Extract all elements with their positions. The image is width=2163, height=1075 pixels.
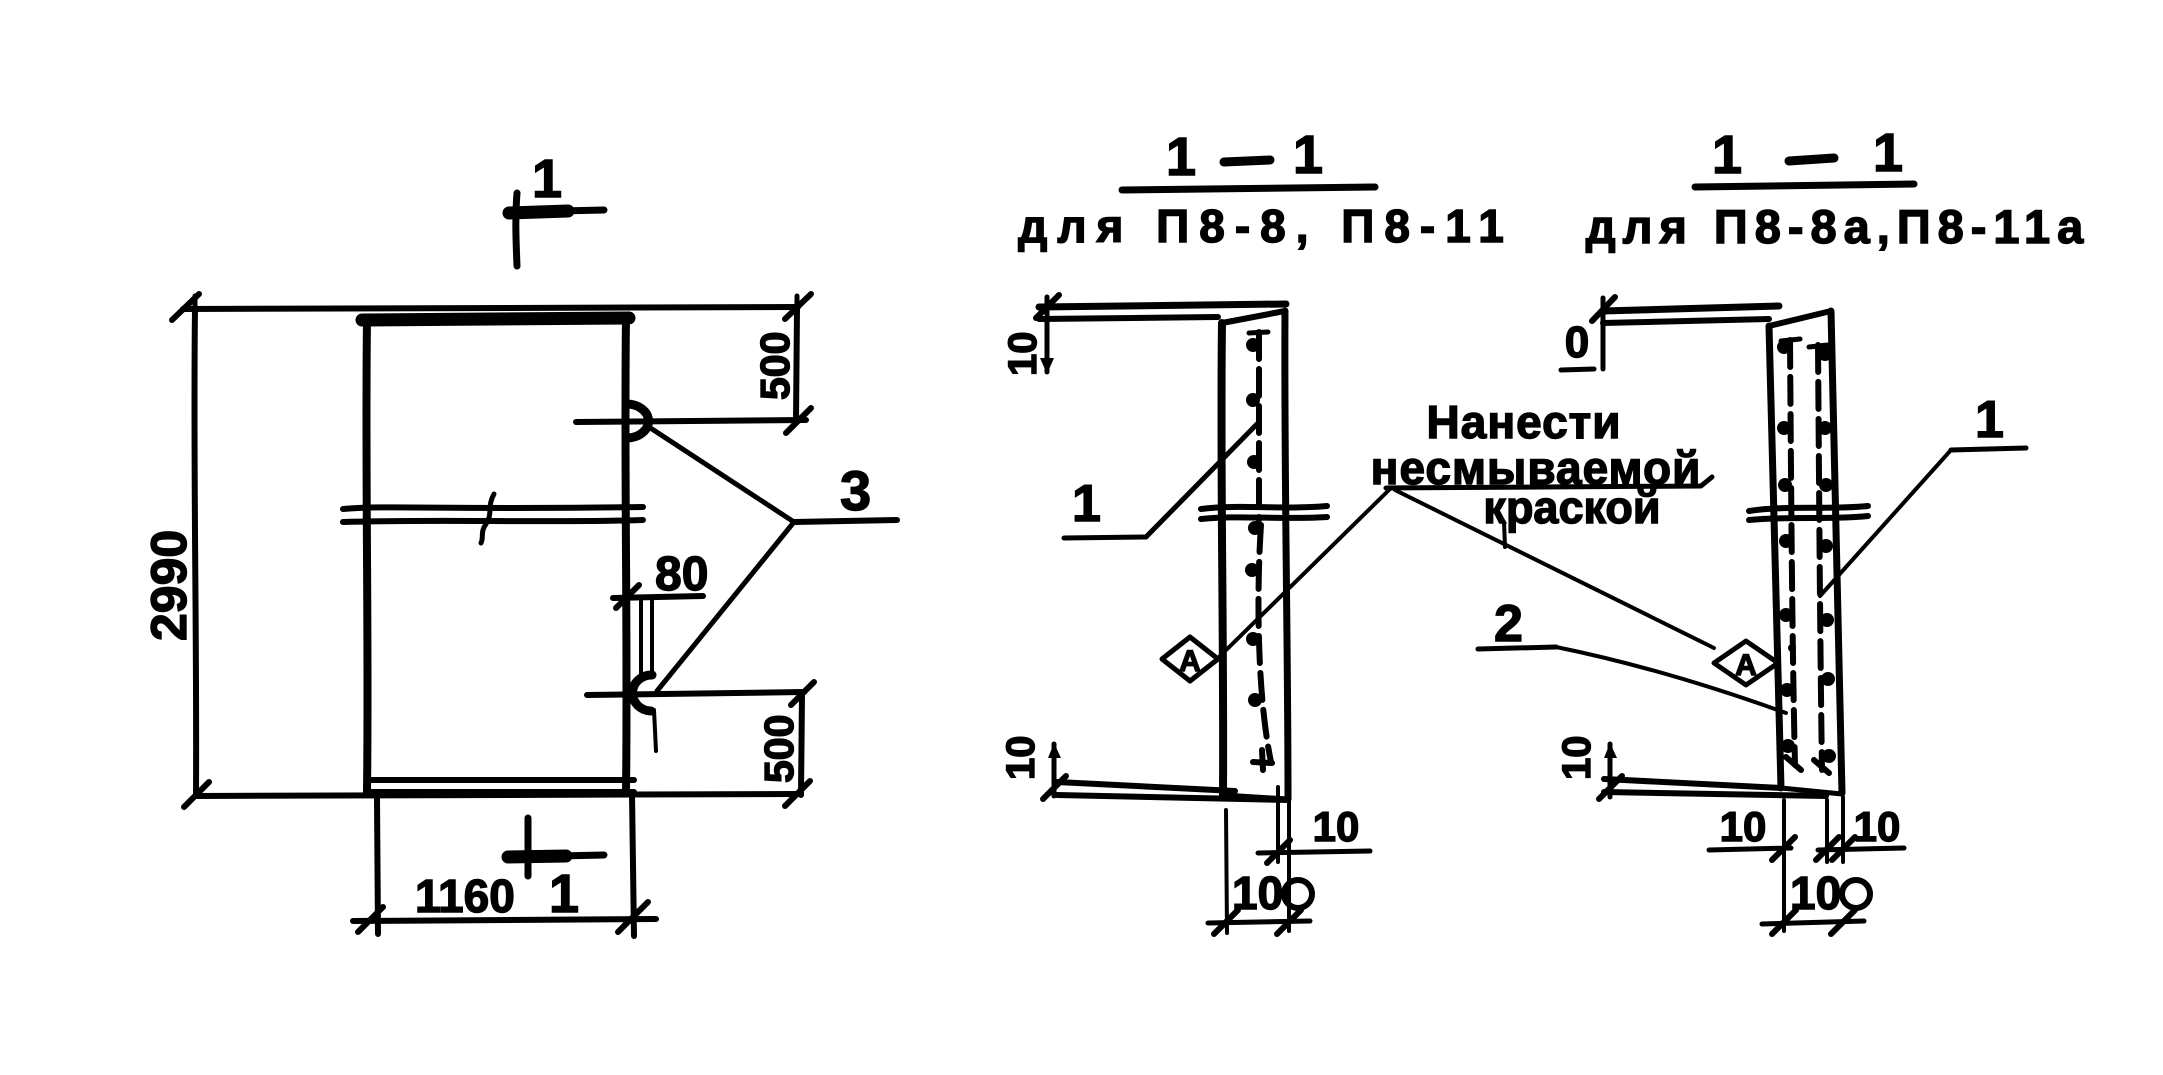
lifting loop (bottom hook) xyxy=(632,675,652,711)
break line with zigzag xyxy=(343,494,643,543)
10 bottom-left dimension (middle) xyxy=(999,736,1066,800)
0 dimension (right top) xyxy=(1561,297,1615,370)
paint mark diamond A (middle) xyxy=(1162,637,1218,681)
10 top dimension (middle) xyxy=(1001,295,1059,376)
bottom slab edge lines (middle) xyxy=(1057,782,1288,800)
svg-text:для П8-8, П8-11: для П8-8, П8-11 xyxy=(1018,200,1514,252)
bottom dimension line xyxy=(196,781,810,806)
callout 2 leader xyxy=(1478,595,1786,713)
rebar 2 in right section xyxy=(1809,345,1836,773)
panel section outline (middle) xyxy=(1221,311,1288,799)
svg-text:80: 80 xyxy=(655,548,708,601)
rebar 1 in middle section xyxy=(1245,332,1272,770)
svg-text:10: 10 xyxy=(999,736,1043,781)
svg-text:Нанести: Нанести xyxy=(1427,396,1622,448)
extension lines 1160 xyxy=(377,798,378,934)
leader from note to right diamond xyxy=(1395,490,1714,648)
svg-text:10: 10 xyxy=(1555,736,1599,781)
svg-text:для П8-8а,П8-11а: для П8-8а,П8-11а xyxy=(1586,200,2090,253)
axis line through bottom hook / 500 dim line xyxy=(587,682,814,705)
svg-text:3: 3 xyxy=(840,459,871,522)
svg-text:500: 500 xyxy=(756,715,802,783)
note text: apply with indelible paint xyxy=(1371,396,1712,533)
section mark 1 (top) xyxy=(509,149,604,266)
panel section outline (right) xyxy=(1769,311,1842,794)
500 top dimension xyxy=(752,309,798,421)
bottom extension lines (middle) xyxy=(1226,787,1289,933)
section mark 1 (bottom) xyxy=(508,818,604,924)
svg-text:A: A xyxy=(1735,649,1757,682)
section title 1-1 (right) xyxy=(1695,123,1914,187)
section title 1-1 (middle) xyxy=(1122,125,1375,190)
10 dimension bottom left (right) xyxy=(1709,803,1795,860)
svg-text:1: 1 xyxy=(1873,123,1903,183)
100 dimension (middle) xyxy=(1208,867,1312,934)
svg-text:2990: 2990 xyxy=(141,530,197,641)
10 dimension bottom right (right) xyxy=(1816,803,1904,860)
svg-text:10: 10 xyxy=(1720,803,1767,850)
svg-text:10: 10 xyxy=(1001,332,1045,377)
10 dimension bottom (middle) xyxy=(1258,803,1370,863)
top dimension line xyxy=(172,294,811,320)
axis line through top hook / 500 dim line xyxy=(576,408,811,433)
svg-text:1: 1 xyxy=(1975,391,2004,449)
500 bottom dimension xyxy=(756,693,802,795)
svg-text:A: A xyxy=(1179,645,1201,678)
lifting loop (top hook) xyxy=(626,404,648,438)
svg-text:500: 500 xyxy=(752,332,798,400)
callout 3 leader xyxy=(652,429,897,691)
rebar 1 in right section xyxy=(1777,339,1801,770)
bottom slab edge lines (right) xyxy=(1604,779,1826,796)
bottom extension lines (right) xyxy=(1784,797,1843,931)
left dimension extension line 2990 xyxy=(194,309,196,796)
break line (right section) xyxy=(1749,506,1868,520)
top slab edge lines (middle) xyxy=(1039,304,1286,319)
paint mark diamond A (right) xyxy=(1714,641,1796,685)
svg-text:2: 2 xyxy=(1494,595,1523,653)
svg-text:1: 1 xyxy=(532,149,562,209)
panel outline (plan view) xyxy=(362,318,634,792)
callout 1 leader (right) xyxy=(1820,391,2026,596)
100 dimension (right) xyxy=(1762,867,1870,934)
svg-text:10: 10 xyxy=(1854,803,1901,850)
svg-text:1160: 1160 xyxy=(415,870,515,922)
1160 dimension line xyxy=(353,870,656,932)
svg-text:1: 1 xyxy=(549,864,579,924)
svg-text:1: 1 xyxy=(1293,125,1323,185)
leader from note to middle diamond xyxy=(1219,488,1391,657)
svg-text:1: 1 xyxy=(1712,125,1742,185)
svg-text:0: 0 xyxy=(1565,318,1589,367)
svg-text:1: 1 xyxy=(1072,475,1101,533)
svg-text:10: 10 xyxy=(1313,803,1360,850)
callout 1 leader (middle) xyxy=(1064,422,1259,538)
small tick below kraskoy xyxy=(1504,522,1505,547)
top slab edge lines (right) xyxy=(1603,306,1779,323)
10 bottom-left dimension (right) xyxy=(1555,736,1622,800)
break line (middle section) xyxy=(1201,506,1327,519)
arrow bottom-left of 2990 line xyxy=(184,782,209,807)
80 dimension xyxy=(613,548,708,751)
svg-text:1: 1 xyxy=(1166,127,1196,187)
